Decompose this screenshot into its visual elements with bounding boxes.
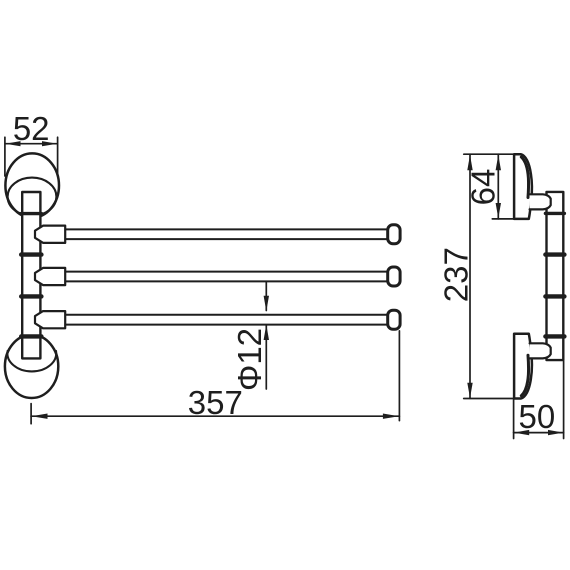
arm 3 end cap <box>388 310 400 329</box>
top mount body outline <box>514 154 532 219</box>
dimension phi12: lower leader with up arrow <box>265 325 267 389</box>
arm 1 bar <box>65 228 388 230</box>
dimension 52: left arrow <box>5 141 20 146</box>
dimension 237: down arrow <box>467 383 472 398</box>
dimension 357: left arrow <box>31 414 47 419</box>
side view: post joint above bottom flange <box>545 334 564 338</box>
svg-text:52: 52 <box>13 110 50 147</box>
dimension 357: dimension line <box>31 415 399 417</box>
arm 2 swivel connector <box>35 268 65 285</box>
svg-text:Φ12: Φ12 <box>231 328 268 391</box>
front view: wall flange bottom inner dome ellipse <box>7 351 56 372</box>
dimension 64: dimension line <box>497 154 499 219</box>
dimension 237: bottom extension line <box>464 398 516 400</box>
dimension 237: up arrow <box>467 155 472 170</box>
dimension 357: left extension line <box>30 404 32 424</box>
bottom mount body outline <box>514 334 532 399</box>
arm 1 swivel connector <box>35 226 65 243</box>
dimension 50: right arrow <box>548 430 563 435</box>
side view: post joint ring 2 <box>545 294 564 298</box>
dimension 50: left extension line <box>513 400 515 439</box>
dimension 357: right arrow <box>383 414 399 419</box>
dimension 50: right extension line <box>563 361 565 439</box>
arm 1 end cap <box>388 225 400 244</box>
front view: post joint ring 1 <box>21 252 41 256</box>
dimension 50: left arrow <box>514 430 529 435</box>
svg-text:237: 237 <box>437 247 474 302</box>
side view: vertical post <box>547 192 564 360</box>
side view: post joint under top flange <box>545 212 564 215</box>
arm 3 bar <box>65 314 388 316</box>
front view: post joint ring 2 <box>21 294 41 298</box>
dimension 52: extension lines <box>4 137 6 176</box>
side view: top wall mount <box>514 154 551 219</box>
dimension 357: right extension line <box>398 331 400 421</box>
front view: post joint under top flange <box>21 212 41 215</box>
svg-text:64: 64 <box>464 169 501 206</box>
bottom mount dome reflection <box>521 355 528 396</box>
arm 3 swivel connector <box>35 311 65 328</box>
front view: wall flange bottom outer ellipse <box>5 335 58 398</box>
arm 2 bar <box>65 271 388 273</box>
dimension 64: bottom extension line <box>492 218 516 220</box>
dimension 50: dimension line <box>514 432 564 434</box>
top mount neck to post <box>530 194 551 209</box>
dimension phi12: upper leader with down arrow <box>265 282 267 311</box>
dimension 52: right arrow <box>42 141 57 146</box>
bottom mount neck to post <box>530 343 551 358</box>
front view: wall flange top outer ellipse <box>5 153 59 217</box>
dimension 64: down arrow <box>496 203 501 218</box>
front view: vertical post <box>22 192 40 358</box>
top mount dome reflection <box>521 157 528 198</box>
dimension 64: top extension line <box>464 153 516 155</box>
side view: bottom wall mount (mirrored) <box>514 334 551 399</box>
svg-text:50: 50 <box>519 398 556 435</box>
arm 2 end cap <box>388 267 400 286</box>
side view: post joint ring 1 <box>545 252 564 256</box>
front view: post joint above bottom flange <box>21 334 41 338</box>
dimension 64: up arrow <box>496 155 501 170</box>
dimension 237: dimension line <box>469 154 471 398</box>
front view: wall flange top inner dome ellipse <box>8 178 57 216</box>
dimension 52: dimension line <box>5 143 57 145</box>
